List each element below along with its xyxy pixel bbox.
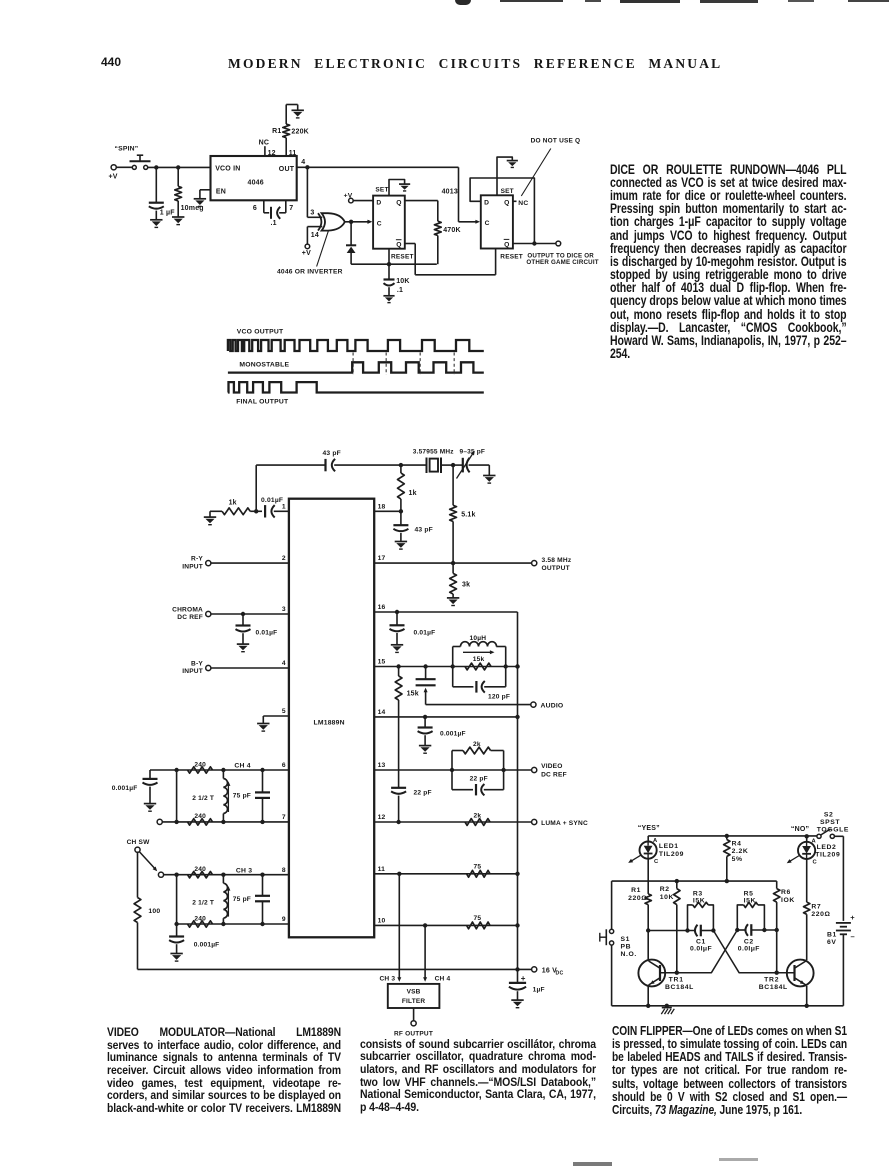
svg-text:0.001µF: 0.001µF — [440, 731, 466, 738]
svg-text:MONOSTABLE: MONOSTABLE — [239, 362, 289, 369]
svg-text:5.1k: 5.1k — [461, 511, 475, 518]
svg-text:FINAL OUTPUT: FINAL OUTPUT — [236, 398, 289, 405]
svg-text:14: 14 — [378, 709, 386, 716]
svg-text:14: 14 — [311, 232, 319, 239]
svg-text:D: D — [376, 200, 381, 207]
pin 6 / pin 7 capacitor .1 — [263, 200, 265, 213]
svg-text:3.57955 MHz: 3.57955 MHz — [413, 449, 454, 456]
capacitor 75 pF CH4 — [262, 770, 264, 792]
ground — [150, 219, 162, 221]
pointer line and label 4046 OR INVERTER — [317, 231, 329, 267]
wire — [116, 166, 132, 168]
cross wire C2 to TR1 base — [660, 930, 737, 973]
svg-text:1 µF: 1 µF — [160, 210, 175, 217]
capacitor 75 pF CH3 — [262, 875, 264, 896]
svg-text:7: 7 — [282, 814, 286, 821]
FF1 reset stub — [388, 249, 390, 265]
pin 6 wire — [150, 769, 289, 771]
FF1 D input +V — [349, 198, 354, 203]
ground — [144, 803, 156, 805]
node — [451, 463, 455, 467]
svg-text:OUT: OUT — [279, 166, 295, 173]
svg-text:12: 12 — [378, 814, 386, 821]
crystal 3.57955 MHz — [401, 464, 426, 466]
svg-text:INPUT: INPUT — [182, 668, 203, 675]
FF2 set pin to ground — [497, 157, 512, 195]
capacitor C2 0.01uF — [737, 929, 744, 931]
resistor 5.1k — [452, 465, 454, 505]
ground — [447, 597, 459, 599]
svg-text:INPUT: INPUT — [182, 563, 203, 570]
svg-text:RF OUTPUT: RF OUTPUT — [394, 1030, 433, 1037]
svg-text:1k: 1k — [409, 490, 417, 497]
svg-text:VIDEO: VIDEO — [541, 763, 563, 770]
text column 2 — [360, 1038, 596, 1114]
svg-text:8: 8 — [282, 867, 286, 874]
svg-text:0.01µF: 0.01µF — [414, 630, 436, 637]
svg-text:R1: R1 — [631, 887, 641, 894]
svg-text:DC: DC — [556, 970, 564, 976]
wire to top rail — [255, 465, 257, 511]
svg-text:220Ω: 220Ω — [811, 911, 830, 918]
pin 16 wire — [374, 611, 517, 613]
svg-text:1µF: 1µF — [533, 987, 545, 994]
network 2k / 22 pF at pin 13 — [451, 751, 453, 790]
svg-text:10: 10 — [378, 918, 386, 925]
svg-text:220Ω: 220Ω — [628, 895, 647, 902]
svg-text:C: C — [485, 220, 490, 227]
svg-text:Q: Q — [504, 241, 509, 248]
svg-text:IOK: IOK — [781, 897, 795, 904]
svg-text:240: 240 — [194, 866, 206, 873]
svg-text:11: 11 — [378, 866, 386, 873]
svg-text:“NO”: “NO” — [791, 826, 809, 833]
pin 5 ground — [263, 715, 289, 717]
capacitor 0.001uF bottom — [176, 924, 178, 936]
svg-text:6V: 6V — [827, 939, 837, 946]
svg-text:SPST: SPST — [820, 819, 840, 826]
svg-text:D: D — [484, 199, 489, 206]
svg-text:A: A — [653, 838, 658, 844]
svg-text:10K: 10K — [396, 278, 409, 285]
svg-text:22 pF: 22 pF — [470, 775, 488, 782]
right rail — [517, 612, 519, 969]
resistor 1k at pin 18 — [400, 465, 402, 473]
pushbutton S1 — [610, 929, 614, 933]
svg-text:C: C — [813, 859, 818, 865]
wire OUT to FF2 clock — [458, 167, 460, 222]
TR2 collector wire / resistor R7 220 — [806, 836, 808, 842]
svg-text:2k: 2k — [473, 741, 481, 748]
svg-text:S1: S1 — [621, 936, 631, 943]
svg-text:Q: Q — [396, 200, 401, 207]
wire CH4 to VSB filter — [424, 925, 426, 977]
svg-text:2: 2 — [282, 555, 286, 562]
svg-text:AUDIO: AUDIO — [541, 702, 564, 709]
cross wire C1 to TR2 base — [713, 931, 794, 973]
node — [176, 165, 180, 169]
svg-text:5: 5 — [282, 708, 286, 715]
capacitor .1 with 10K label — [388, 264, 390, 279]
svg-text:15k: 15k — [473, 656, 485, 663]
pin 11 / resistor R1 220K — [285, 138, 287, 156]
capacitor 43 pF at pin 18 — [400, 511, 402, 524]
resistor R6 10K — [776, 881, 778, 889]
svg-text:5%: 5% — [732, 856, 743, 863]
ground — [292, 109, 304, 111]
svg-text:0.0IμF: 0.0IμF — [690, 946, 712, 953]
pin 3 chroma dc ref — [206, 611, 211, 616]
page number — [101, 55, 121, 69]
svg-text:Q: Q — [396, 242, 401, 249]
capacitor 0.001uF left — [149, 770, 151, 778]
node: VCO IN junction — [154, 165, 158, 169]
resistor 240 bottom CH4 — [188, 819, 213, 825]
inductor 2 1/2 T CH4 — [222, 770, 224, 779]
LED1 cathode wire — [647, 859, 649, 894]
svg-text:75: 75 — [474, 863, 482, 870]
svg-text:C: C — [377, 220, 382, 227]
pin 8 wire CH3 — [158, 872, 163, 877]
node at OUT — [305, 165, 309, 169]
svg-text:CH 4: CH 4 — [234, 763, 250, 770]
svg-text:0.01µF: 0.01µF — [261, 497, 283, 504]
svg-text:Q: Q — [504, 199, 509, 206]
svg-text:DO NOT USE Q: DO NOT USE Q — [531, 137, 581, 144]
capacitor 120 pF — [453, 686, 474, 688]
svg-text:43 pF: 43 pF — [323, 450, 341, 457]
svg-text:VCO IN: VCO IN — [215, 165, 240, 172]
FF2 feedback loop Q-bar to D — [470, 178, 534, 244]
pin 4 OUT wire — [297, 166, 459, 168]
svg-text:9–35 pF: 9–35 pF — [460, 449, 486, 456]
resistor R3 15K loop — [688, 905, 693, 931]
svg-text:1k: 1k — [229, 499, 237, 506]
svg-text:VSB: VSB — [407, 989, 421, 996]
wire XOR pin 14 to +V — [307, 226, 322, 228]
svg-text:0.001µF: 0.001µF — [194, 942, 220, 949]
pin 15 wire — [374, 666, 517, 668]
wire to XOR pin 3 — [306, 167, 308, 217]
svg-text:OUTPUT: OUTPUT — [542, 565, 570, 572]
text block: dice or roulette rundown — [610, 163, 847, 361]
resistor 1k at pin 1 — [209, 511, 211, 517]
FF2 Q output NC — [513, 200, 517, 202]
FF2 Q-bar output to game circuit — [513, 243, 556, 245]
svg-text:CHROMA: CHROMA — [172, 607, 203, 614]
svg-text:N.O.: N.O. — [621, 951, 637, 958]
ground — [383, 295, 394, 297]
pin 17 wire 3.58 MHz output — [374, 562, 531, 564]
pin 4 B-Y input — [206, 665, 211, 670]
capacitor 22 pF left chain — [391, 787, 406, 789]
svg-text:75 pF: 75 pF — [233, 896, 251, 903]
ground — [237, 643, 249, 645]
IC LM1889N box — [289, 499, 374, 938]
wire — [148, 166, 211, 168]
diode — [350, 222, 352, 245]
pin 2 R-Y input — [206, 561, 211, 566]
svg-text:LM1889N: LM1889N — [314, 720, 345, 727]
pin 10 wire — [374, 924, 517, 926]
resistor 15k vertical — [398, 667, 400, 677]
pin 18 wire — [374, 510, 401, 512]
resistor R4 2.2K — [725, 834, 729, 838]
svg-text:B1: B1 — [827, 932, 837, 939]
mid rail — [612, 880, 777, 882]
FF1 Q output wire / resistor 470K — [405, 200, 438, 202]
svg-text:TR2: TR2 — [764, 976, 779, 983]
pin 12 NC stub — [264, 146, 266, 156]
resistor 240 top CH4 — [188, 767, 213, 773]
node pin1 — [254, 509, 258, 513]
svg-text:LED2: LED2 — [817, 844, 837, 851]
svg-text:EN: EN — [216, 188, 226, 195]
svg-text:4046: 4046 — [248, 179, 264, 186]
pin 9 wire — [177, 923, 289, 925]
TR2 emitter wire — [806, 986, 808, 1006]
ground — [172, 216, 184, 218]
trimmer capacitor at pin 15 — [425, 667, 427, 679]
svg-text:R5: R5 — [744, 890, 754, 897]
svg-text:2k: 2k — [474, 813, 482, 820]
svg-text:R-Y: R-Y — [191, 556, 203, 563]
svg-text:6: 6 — [282, 762, 286, 769]
svg-text:TIL209: TIL209 — [659, 851, 684, 858]
text column 3: coin flipper — [612, 1025, 847, 1117]
capacitor 0.001uF at pin 14 — [424, 717, 426, 727]
capacitor 1uF at supply — [517, 969, 519, 982]
top rail / capacitor 43 pF — [256, 464, 325, 466]
RF output terminal — [413, 1008, 415, 1021]
svg-text:2 1/2 T: 2 1/2 T — [192, 899, 214, 906]
capacitor C1 0.01uF — [695, 925, 698, 937]
pin 12 wire luma+sync — [374, 821, 531, 823]
transistor TR2 BC184L — [787, 960, 814, 987]
cross-coupling node row — [648, 930, 694, 932]
battery B1 6V — [836, 922, 851, 924]
ground — [395, 541, 407, 543]
svg-text:15k: 15k — [407, 690, 419, 697]
ground — [391, 644, 403, 646]
ground — [511, 999, 523, 1001]
svg-text:7: 7 — [289, 205, 293, 212]
bottom reset rail — [351, 263, 437, 265]
svg-text:R3: R3 — [693, 890, 703, 897]
svg-text:75 pF: 75 pF — [233, 793, 251, 800]
svg-text:3: 3 — [282, 606, 286, 613]
svg-text:RESET: RESET — [391, 254, 414, 261]
svg-text:17: 17 — [378, 555, 386, 562]
pin 7 wire — [157, 819, 162, 824]
ground — [488, 465, 490, 475]
svg-text:–: – — [851, 932, 855, 941]
text column 1: video modulator — [107, 1026, 341, 1114]
svg-text:3: 3 — [310, 209, 314, 216]
svg-text:240: 240 — [194, 915, 206, 922]
svg-text:10µH: 10µH — [470, 635, 487, 642]
svg-text:C1: C1 — [696, 938, 706, 945]
svg-text:B-Y: B-Y — [191, 661, 203, 668]
svg-text:OTHER GAME CIRCUIT: OTHER GAME CIRCUIT — [526, 259, 598, 266]
tank CH3 left vertical — [176, 875, 178, 924]
FF1 set pin to ground — [389, 180, 405, 196]
IC 4046 box — [211, 156, 297, 200]
ground — [419, 745, 431, 747]
node — [241, 612, 245, 616]
svg-text:BC184L: BC184L — [665, 984, 694, 991]
svg-text:22 pF: 22 pF — [414, 790, 432, 797]
svg-text:120 pF: 120 pF — [488, 693, 510, 700]
resistor R2 10K — [676, 881, 678, 889]
svg-text:+V: +V — [302, 250, 311, 257]
resistor 3k — [452, 563, 454, 573]
trimmer capacitor 9-35 pF — [453, 464, 462, 466]
svg-text:11: 11 — [289, 150, 297, 157]
VSB FILTER box — [388, 984, 440, 1008]
pin 13 wire video dc ref — [374, 769, 531, 771]
resistor 10meg — [177, 167, 179, 186]
svg-text:CH 3: CH 3 — [236, 867, 252, 874]
capacitor 1 uF — [155, 167, 157, 202]
transistor TR1 BC184L — [638, 960, 665, 987]
svg-text:TOGGLE: TOGGLE — [817, 826, 849, 833]
svg-text:0.01µF: 0.01µF — [256, 630, 278, 637]
svg-text:.1: .1 — [397, 287, 403, 294]
svg-text:4013: 4013 — [442, 189, 458, 196]
svg-text:75: 75 — [474, 915, 482, 922]
svg-text:.1: .1 — [271, 220, 277, 227]
XOR output node and wire to FF1 clock — [345, 221, 369, 223]
svg-text:NC: NC — [259, 140, 270, 147]
svg-text:DC REF: DC REF — [177, 614, 203, 621]
node pin18 top — [399, 463, 403, 467]
svg-text:“SPIN”: “SPIN” — [115, 146, 139, 153]
svg-text:2.2K: 2.2K — [732, 848, 749, 855]
audio output wire — [426, 704, 531, 706]
svg-text:15: 15 — [378, 659, 386, 666]
FINAL OUTPUT waveform — [228, 382, 484, 392]
svg-text:9: 9 — [282, 916, 286, 923]
resistor 100 — [137, 852, 139, 897]
svg-text:VCO OUTPUT: VCO OUTPUT — [237, 329, 284, 336]
svg-text:3.58 MHz: 3.58 MHz — [542, 557, 572, 564]
svg-text:240: 240 — [194, 761, 206, 768]
XOR gate 4046 or inverter — [318, 213, 321, 230]
svg-text:NC: NC — [518, 200, 528, 207]
node — [395, 610, 399, 614]
EN pin ground stub — [200, 189, 211, 191]
FF1 Q-bar output wire — [405, 243, 415, 245]
network 10uH / 15k / 120 pF — [452, 647, 454, 687]
svg-text:0.001µF: 0.001µF — [112, 785, 138, 792]
svg-text:4: 4 — [301, 159, 305, 166]
chassis ground — [662, 1007, 672, 1009]
scan artifact top edge — [455, 0, 471, 5]
svg-text:240: 240 — [194, 813, 206, 820]
right rail — [842, 836, 844, 921]
jog wire to FF2 reset — [415, 274, 495, 276]
svg-text:TIL209: TIL209 — [815, 852, 840, 859]
pin 14 wire — [374, 716, 517, 718]
svg-text:LED1: LED1 — [659, 843, 679, 850]
svg-text:SET: SET — [375, 187, 388, 194]
tank CH4 left vertical — [176, 770, 178, 822]
svg-text:I5K: I5K — [744, 898, 756, 905]
svg-text:R4: R4 — [732, 841, 742, 848]
svg-text:DC REF: DC REF — [541, 771, 567, 778]
svg-text:PB: PB — [621, 944, 632, 951]
svg-text:0.0IμF: 0.0IμF — [738, 946, 760, 953]
svg-text:R1: R1 — [272, 128, 281, 135]
svg-text:CH 3: CH 3 — [379, 976, 395, 983]
svg-text:I5K: I5K — [693, 898, 705, 905]
svg-text:220K: 220K — [291, 129, 309, 136]
svg-text:13: 13 — [378, 762, 386, 769]
flip-flop FF1 (4013 half) — [373, 196, 405, 249]
svg-text:S2: S2 — [824, 811, 834, 818]
svg-text:1: 1 — [282, 504, 286, 511]
svg-text:6: 6 — [253, 205, 257, 212]
svg-text:470K: 470K — [443, 227, 461, 234]
capacitor 0.01uF at pin 16 — [396, 612, 398, 625]
ground — [170, 953, 182, 955]
capacitor 0.01uF at pin 1 — [264, 505, 266, 517]
TR1 emitter wire — [647, 986, 649, 1005]
ground rail — [612, 1005, 844, 1007]
svg-text:SET: SET — [501, 188, 514, 195]
svg-text:C: C — [654, 859, 659, 865]
svg-text:12: 12 — [268, 150, 276, 157]
svg-text:4046 OR INVERTER: 4046 OR INVERTER — [277, 269, 343, 276]
flip-flop FF2 (4013 half) — [481, 195, 513, 248]
svg-text:43 pF: 43 pF — [415, 527, 433, 534]
svg-text:3k: 3k — [462, 582, 470, 589]
svg-text:CH 4: CH 4 — [435, 976, 451, 983]
supply rail 16 VDC — [138, 968, 532, 970]
svg-text:+: + — [850, 913, 855, 922]
dice circuit: +V supply terminal — [111, 165, 116, 170]
svg-text:R6: R6 — [781, 889, 791, 896]
pin 15 dot on rail — [515, 664, 519, 668]
running head title — [228, 56, 722, 72]
inductor 2 1/2 T CH3 — [222, 875, 224, 884]
svg-text:R7: R7 — [811, 904, 821, 911]
left rail to S1 — [611, 881, 613, 929]
wire CH3 to VSB filter — [398, 874, 400, 978]
dashed timing lines — [352, 353, 354, 376]
svg-text:10K: 10K — [660, 894, 674, 901]
svg-text:18: 18 — [378, 504, 386, 511]
pin 11 wire — [374, 873, 517, 875]
svg-text:CH SW: CH SW — [127, 839, 151, 846]
resistor R1 220 — [645, 894, 651, 905]
svg-text:FILTER: FILTER — [402, 998, 426, 1005]
resistor 15k horizontal — [465, 663, 491, 670]
svg-text:4: 4 — [282, 660, 286, 667]
svg-text:100: 100 — [148, 908, 160, 915]
TR1 collector wire — [647, 931, 649, 960]
svg-text:“YES”: “YES” — [638, 825, 660, 832]
svg-text:RESET: RESET — [500, 254, 523, 261]
FF1 clock arrowhead — [367, 220, 372, 224]
svg-text:LUMA + SYNC: LUMA + SYNC — [541, 820, 588, 827]
svg-text:+V: +V — [109, 174, 118, 181]
capacitor 0.01uF at pin 3 — [242, 614, 244, 625]
svg-text:+V: +V — [344, 192, 353, 199]
resistor R5 15K loop — [737, 905, 743, 930]
svg-text:C2: C2 — [744, 938, 754, 945]
